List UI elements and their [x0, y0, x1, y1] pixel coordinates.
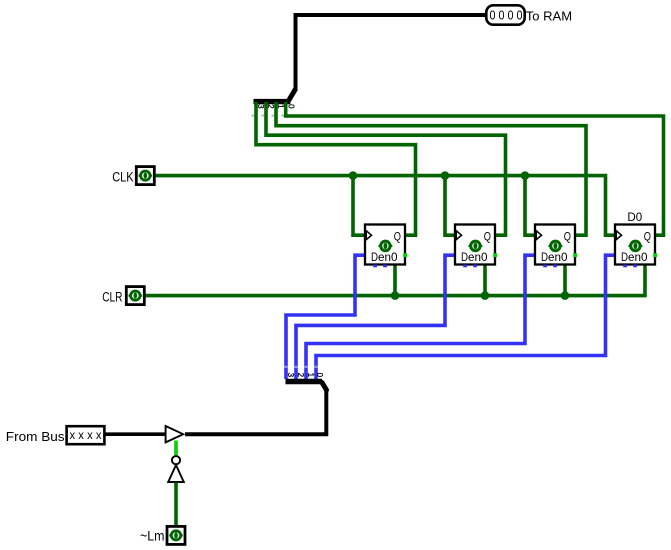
input pin CLK	[112, 167, 154, 185]
wire net D0 (FF4 D to splitter bit0)	[316, 255, 615, 379]
wire From Bus to buffer	[106, 432, 167, 436]
wire net Q3 (splitter bit3 to FF1 Q)	[256, 102, 416, 235]
input pin From Bus	[6, 426, 105, 444]
svg-text:Q: Q	[564, 229, 571, 243]
input pin CLR	[102, 287, 144, 305]
junction CLK-FF3	[521, 171, 530, 180]
svg-text:en0: en0	[628, 250, 648, 264]
splitter SP1 (bus to 4 bits, top)	[251, 90, 295, 117]
svg-text:3: 3	[286, 373, 295, 378]
wire net Q2 (splitter bit2 to FF2 Q)	[266, 102, 506, 235]
svg-text:From Bus: From Bus	[6, 429, 65, 444]
wire CLR stub FF1	[393, 265, 397, 296]
svg-text:CLR: CLR	[102, 289, 123, 304]
D flip-flop FF3	[535, 225, 577, 268]
junction CLK-FF1	[349, 171, 358, 180]
svg-text:1: 1	[306, 373, 315, 378]
wire CLR stub FF3	[563, 265, 567, 296]
wire CLR stub FF2	[483, 265, 487, 296]
inverter NOT1	[168, 456, 184, 482]
svg-text:D0: D0	[627, 210, 642, 224]
svg-text:Q: Q	[394, 229, 401, 243]
D flip-flop FF2	[455, 225, 497, 268]
wire net D1 (FF3 D to splitter bit1)	[306, 255, 535, 379]
wire bus to RAM	[296, 15, 487, 88]
wire ~Lm to inverter (value 0, dark green)	[174, 483, 178, 527]
svg-text:CLK: CLK	[112, 169, 133, 184]
svg-text:en0: en0	[468, 250, 488, 264]
svg-text:2: 2	[296, 373, 305, 378]
wire CLK line	[156, 176, 616, 236]
wire enable (value 1, bright green)	[174, 441, 178, 457]
wire CLK drop to FF2	[445, 176, 455, 236]
wire CLR line	[146, 265, 646, 296]
wire net D2 (FF2 D to splitter bit2)	[296, 255, 455, 379]
wire net D3 (FF1 D to splitter bit3, blue unknown)	[286, 255, 365, 379]
svg-text:Q: Q	[644, 229, 651, 243]
junction CLK-FF2	[441, 171, 450, 180]
junction CLR-FF3	[561, 291, 570, 300]
svg-text:en0: en0	[548, 250, 568, 264]
junction CLR-FF1	[391, 291, 400, 300]
svg-text:~Lm: ~Lm	[140, 528, 165, 543]
wire net Q1 (splitter bit1 to FF3 Q)	[276, 102, 586, 235]
svg-text:en0: en0	[378, 250, 398, 264]
svg-text:0: 0	[315, 373, 324, 378]
buffer B1 (controlled buffer)	[166, 426, 184, 442]
svg-text:To RAM: To RAM	[526, 8, 572, 23]
output pin To RAM	[486, 5, 572, 24]
svg-text:x x x x: x x x x	[70, 430, 102, 442]
wire bus splitter to buffer	[185, 388, 326, 434]
splitter SP2 (4 bits to bus, bottom)	[284, 366, 326, 390]
svg-text:Q: Q	[484, 229, 491, 243]
D flip-flop FF4	[615, 225, 657, 268]
input pin ~Lm	[140, 526, 185, 544]
svg-text:0 0 0 0: 0 0 0 0	[490, 9, 523, 23]
svg-text:0: 0	[287, 104, 296, 109]
wire CLK drop to FF3	[525, 176, 535, 236]
wire CLK drop to FF1	[353, 176, 365, 236]
junction CLR-FF2	[481, 291, 490, 300]
D flip-flop FF1	[365, 225, 407, 268]
wire net Q0 (splitter bit0 to FF4 Q)	[286, 102, 664, 235]
